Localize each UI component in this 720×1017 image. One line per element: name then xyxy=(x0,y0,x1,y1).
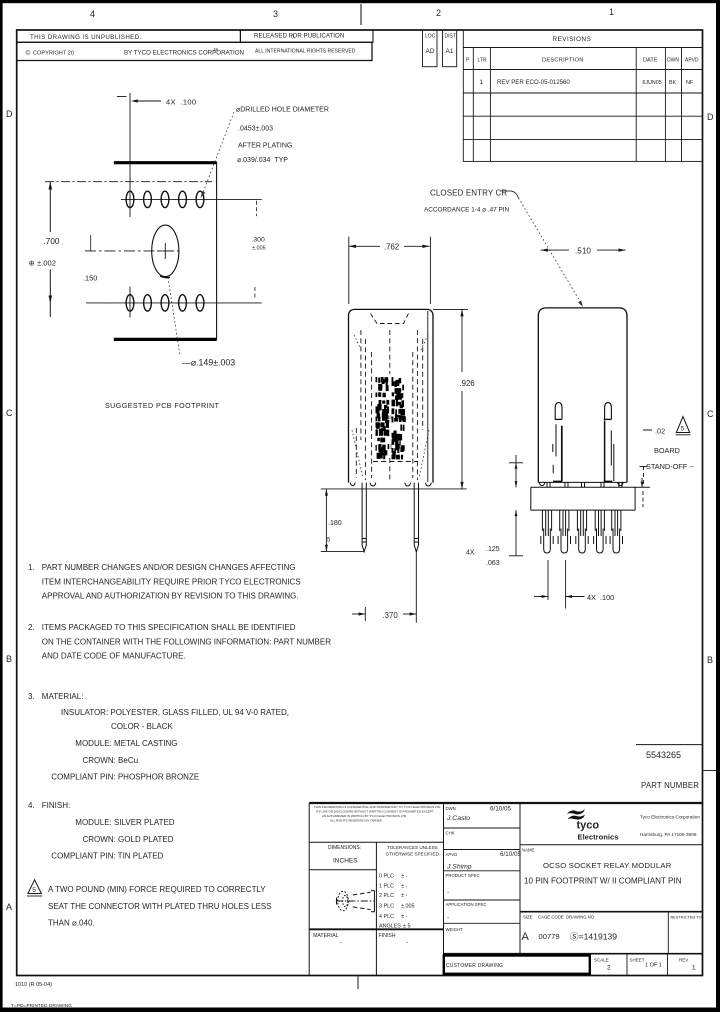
svg-text:.180: .180 xyxy=(328,520,342,527)
svg-text:PRODUCT SPEC: PRODUCT SPEC xyxy=(446,873,480,878)
svg-text:ON THE CONTAINER WITH THE FOLL: ON THE CONTAINER WITH THE FOLLOWING INFO… xyxy=(42,637,331,646)
legal fine print block xyxy=(314,805,441,823)
svg-text:AD: AD xyxy=(426,48,435,55)
internal dashed lines group xyxy=(356,330,422,908)
svg-text:FINISH:: FINISH: xyxy=(42,801,70,810)
svg-text:MATERIAL:: MATERIAL: xyxy=(42,692,84,701)
svg-text:INCHES: INCHES xyxy=(333,858,358,865)
svg-text:-: - xyxy=(447,890,449,896)
line through bottom hole row xyxy=(105,302,262,304)
svg-text:4.: 4. xyxy=(28,801,35,810)
svg-text:5543265: 5543265 xyxy=(646,750,681,760)
svg-text:4: 4 xyxy=(90,9,95,19)
svg-text:OTHERWISE SPECIFIED:: OTHERWISE SPECIFIED: xyxy=(386,852,441,857)
svg-text:1010 (R 05-04): 1010 (R 05-04) xyxy=(15,982,52,988)
svg-text:RESTRICTED TO: RESTRICTED TO xyxy=(671,915,702,920)
svg-text:REVISIONS: REVISIONS xyxy=(553,36,592,43)
svg-text:.510: .510 xyxy=(575,247,591,256)
title block vertical dividers xyxy=(309,803,520,976)
svg-text:DIMENSIONS:: DIMENSIONS: xyxy=(328,845,361,851)
margin zone letters right xyxy=(707,112,714,665)
svg-text:⌀DRILLED HOLE DIAMETER: ⌀DRILLED HOLE DIAMETER xyxy=(236,107,329,114)
compliant pins below board xyxy=(541,510,623,553)
closed entry callout text xyxy=(424,189,510,214)
svg-text:0 PLC: 0 PLC xyxy=(379,874,394,880)
svg-text:.150: .150 xyxy=(83,274,97,283)
size/cage/drawing row xyxy=(520,912,703,954)
product marking label (dense print) xyxy=(376,377,406,460)
header box row1 left: unpublished notice xyxy=(17,30,241,42)
right pin centerline extended xyxy=(415,552,417,623)
tolerances cell xyxy=(379,845,440,930)
svg-text:CAGE CODE: CAGE CODE xyxy=(538,915,564,920)
name cell xyxy=(520,845,703,886)
svg-text:COMPLIANT PIN: TIN PLATED: COMPLIANT PIN: TIN PLATED xyxy=(51,852,163,861)
svg-text:-: - xyxy=(340,940,342,946)
footprint board outline top edge xyxy=(114,161,217,164)
svg-text:PART NUMBER: PART NUMBER xyxy=(641,781,699,790)
svg-text:4X .100: 4X .100 xyxy=(166,98,196,107)
tick above first column xyxy=(117,96,127,98)
svg-text:COPYRIGHT 20: COPYRIGHT 20 xyxy=(33,51,74,57)
svg-text:4 PLC: 4 PLC xyxy=(379,914,394,920)
svg-text:ALL INTERNATIONAL RIGHTS RESER: ALL INTERNATIONAL RIGHTS RESERVED xyxy=(255,49,356,55)
.370 dimension xyxy=(352,607,416,621)
leader from drill note to hole xyxy=(201,112,235,198)
title block outer top edge xyxy=(309,802,702,804)
svg-text:NAME: NAME xyxy=(522,848,535,853)
svg-text:SHEET: SHEET xyxy=(630,958,645,963)
svg-text:± -: ± - xyxy=(401,874,407,880)
svg-text:-: - xyxy=(447,915,449,921)
LOC box xyxy=(423,30,438,67)
svg-text:CHK: CHK xyxy=(446,831,455,836)
svg-text:± -: ± - xyxy=(401,914,407,920)
svg-text:T=PO=PRINTED DRAWING: T=PO=PRINTED DRAWING xyxy=(11,1003,72,1009)
note 3 material xyxy=(28,692,289,782)
dashed extension top right xyxy=(255,201,257,216)
small vertical stub below centerline xyxy=(90,235,92,251)
svg-text:±.005: ±.005 xyxy=(252,246,266,252)
svg-text:THAN ⌀.040.: THAN ⌀.040. xyxy=(48,919,95,928)
svg-text:4X .100: 4X .100 xyxy=(587,593,614,602)
left pin xyxy=(362,483,366,552)
svg-text:APPROVAL AND AUTHORIZATION BY: APPROVAL AND AUTHORIZATION BY REVISION T… xyxy=(42,592,299,601)
svg-text:REV PER ECO-05-012560: REV PER ECO-05-012560 xyxy=(497,79,570,86)
svg-text:LOC: LOC xyxy=(425,34,436,40)
svg-text:MODULE: METAL CASTING: MODULE: METAL CASTING xyxy=(75,739,177,748)
svg-text:NF: NF xyxy=(686,80,694,86)
front view body outline xyxy=(349,309,434,482)
body bottom edge xyxy=(538,481,627,483)
svg-text:⌀.039/.034 TYP: ⌀.039/.034 TYP xyxy=(237,157,288,164)
svg-text:COMPLIANT PIN: PHOSPHOR BRONZE: COMPLIANT PIN: PHOSPHOR BRONZE xyxy=(51,773,199,782)
diagonal dotted corner lines xyxy=(352,335,429,478)
svg-text:B: B xyxy=(707,655,713,665)
svg-text:CROWN: BeCu: CROWN: BeCu xyxy=(83,756,139,765)
svg-text:.300: .300 xyxy=(252,237,265,244)
svg-text:ALL RIGHTS RESERVED BY OWNER.: ALL RIGHTS RESERVED BY OWNER. xyxy=(330,819,383,823)
svg-text:AS AUTHORIZED IN WRITING BY TY: AS AUTHORIZED IN WRITING BY TYCO ELECTRO… xyxy=(322,814,407,818)
svg-text:THIS DRAWING IS UNPUBLISHED.: THIS DRAWING IS UNPUBLISHED. xyxy=(30,34,142,41)
svg-text:ITEMS PACKAGED TO THIS SPECIFI: ITEMS PACKAGED TO THIS SPECIFICATION SHA… xyxy=(42,623,296,632)
scale / sheet / rev cells xyxy=(594,954,696,976)
material / finish row xyxy=(309,929,443,946)
svg-text:DWN: DWN xyxy=(446,806,456,811)
svg-text:OCSO SOCKET RELAY MODULAR: OCSO SOCKET RELAY MODULAR xyxy=(543,861,672,870)
dwn/chk/apvd rows xyxy=(444,828,521,923)
svg-text:.700: .700 xyxy=(44,237,60,246)
pin tip reference line xyxy=(321,550,364,552)
margin tick right xyxy=(703,770,717,772)
pcb board cross-section xyxy=(531,487,650,510)
board thickness arrows right xyxy=(641,478,644,507)
leader from center hole to .149 note xyxy=(160,276,170,278)
svg-text:ACCORDANCE 1-4 ⌀ .47 PIN: ACCORDANCE 1-4 ⌀ .47 PIN xyxy=(424,207,510,214)
.762 dimension xyxy=(349,237,431,304)
left socket contact xyxy=(553,403,562,483)
svg-text:BK: BK xyxy=(669,80,677,86)
margin zone letters left xyxy=(6,109,13,912)
bottom feet bumps xyxy=(350,483,431,486)
.700 dimension vertical line with arrows xyxy=(49,182,107,317)
svg-text:©: © xyxy=(26,49,31,57)
svg-text:Electronics: Electronics xyxy=(578,833,619,842)
svg-text:A TWO POUND (MIN) FORCE REQUIR: A TWO POUND (MIN) FORCE REQUIRED TO CORR… xyxy=(48,885,266,894)
svg-text:SCALE: SCALE xyxy=(594,958,609,963)
svg-text:DATE: DATE xyxy=(643,58,658,64)
svg-text:ITEM INTERCHANGEABILITY REQUIR: ITEM INTERCHANGEABILITY REQUIRE PRIOR TY… xyxy=(42,577,301,586)
projection symbol xyxy=(336,891,375,912)
svg-text:FINISH: FINISH xyxy=(379,933,396,939)
dash-dot line above top hole row xyxy=(45,181,212,183)
svg-text:AFTER PLATING: AFTER PLATING xyxy=(238,143,292,150)
svg-text:2.: 2. xyxy=(28,623,35,632)
svg-text:DIST: DIST xyxy=(445,34,456,40)
svg-text:INSULATOR: POLYESTER, GLASS FI: INSULATOR: POLYESTER, GLASS FILLED, UL 9… xyxy=(61,708,289,717)
footprint board outline right edge xyxy=(216,162,218,340)
svg-text:REV: REV xyxy=(679,958,688,963)
svg-text:1: 1 xyxy=(692,965,696,972)
revision row 1 xyxy=(480,79,694,86)
centerline vertical through first hole column bottom xyxy=(129,287,131,318)
.020 board stand-off callout xyxy=(643,417,695,472)
tyco logo xyxy=(567,809,618,842)
svg-text:STAND-OFF --: STAND-OFF -- xyxy=(646,462,695,471)
.180 dimension xyxy=(325,489,342,552)
svg-text:tyco: tyco xyxy=(577,820,600,832)
svg-text:3: 3 xyxy=(273,9,278,19)
inner right wall line xyxy=(427,311,429,482)
svg-text:±.005: ±.005 xyxy=(401,904,414,910)
dashed extension bottom right xyxy=(254,287,256,299)
header box row1 right: released for publication xyxy=(240,30,373,42)
svg-text:APVD: APVD xyxy=(685,58,699,64)
svg-text:3 PLC: 3 PLC xyxy=(379,904,394,910)
margin zone numbers top xyxy=(90,7,614,19)
svg-text:CLOSED ENTRY CR: CLOSED ENTRY CR xyxy=(430,189,507,198)
leader from closed entry callout xyxy=(500,191,583,307)
top hole row: 5 plated holes xyxy=(126,191,204,207)
svg-text:BY TYCO ELECTRONICS CORPORATIO: BY TYCO ELECTRONICS CORPORATION xyxy=(124,50,244,57)
line through top hole row xyxy=(121,198,262,200)
svg-text:A: A xyxy=(6,902,12,912)
svg-text:D: D xyxy=(6,109,13,119)
DIST box xyxy=(443,30,457,67)
svg-text:Ⓢ=1419139: Ⓢ=1419139 xyxy=(570,932,617,942)
lower dim line left of pins xyxy=(509,510,523,556)
svg-text:CROWN: GOLD PLATED: CROWN: GOLD PLATED xyxy=(83,835,174,844)
svg-text:.063: .063 xyxy=(486,560,500,567)
svg-text:APPLICATION SPEC: APPLICATION SPEC xyxy=(446,902,487,907)
svg-text:APVD: APVD xyxy=(446,852,458,857)
note 2 xyxy=(28,623,331,661)
body top extension line to .926 dim xyxy=(433,308,468,310)
footprint board outline bottom edge xyxy=(114,338,217,341)
svg-text:—⌀.149±.003: —⌀.149±.003 xyxy=(182,358,235,368)
svg-text:ITS USE OR DISCLOSURE WITHOUT: ITS USE OR DISCLOSURE WITHOUT WRITTEN CO… xyxy=(316,810,434,814)
short pin stubs between body and board xyxy=(547,482,622,487)
dashed extension above board right xyxy=(643,466,645,486)
svg-text:Harrisburg, PA 17105-3608: Harrisburg, PA 17105-3608 xyxy=(640,832,697,837)
right pin xyxy=(414,483,418,552)
svg-text:.02: .02 xyxy=(655,427,665,436)
margin tick bottom xyxy=(357,976,359,990)
svg-text:10 PIN FOOTPRINT W/ II COMPLIA: 10 PIN FOOTPRINT W/ II COMPLIANT PIN xyxy=(524,877,682,886)
svg-text:SUGGESTED PCB FOOTPRINT: SUGGESTED PCB FOOTPRINT xyxy=(105,402,220,410)
svg-text:.762: .762 xyxy=(384,243,399,252)
svg-text:2: 2 xyxy=(436,8,441,18)
dashed top notch xyxy=(371,314,409,324)
.510 dimension xyxy=(541,247,626,256)
stand-off dim left of board xyxy=(509,455,523,487)
4X .100 bottom dimension xyxy=(534,560,614,609)
svg-text:COLOR - BLACK: COLOR - BLACK xyxy=(111,722,173,731)
svg-text:RELEASED FOR PUBLICATION: RELEASED FOR PUBLICATION xyxy=(254,33,344,40)
4X .125 / .063 pin dims xyxy=(466,546,500,567)
svg-text:A1: A1 xyxy=(446,48,454,55)
svg-text:LTR: LTR xyxy=(478,58,487,64)
svg-text:1: 1 xyxy=(609,7,614,17)
svg-text:1: 1 xyxy=(480,79,484,86)
svg-text:.370: .370 xyxy=(383,611,399,620)
bottom hole row: 5 plated holes xyxy=(126,295,204,311)
revisions table xyxy=(463,30,702,161)
svg-text:2: 2 xyxy=(607,965,611,972)
dimensions cell xyxy=(309,842,443,870)
note 5 triangle flag xyxy=(27,880,42,896)
svg-text:4X: 4X xyxy=(466,550,475,557)
right socket contact xyxy=(604,403,614,483)
svg-text:00779: 00779 xyxy=(539,932,560,941)
centerline vertical through first hole column top xyxy=(129,93,131,217)
svg-text:± -: ± - xyxy=(401,884,407,890)
dashed bottom horizontal inside xyxy=(373,461,418,463)
revisions table headers xyxy=(466,36,699,64)
svg-text:J.Casto: J.Casto xyxy=(446,815,470,822)
svg-text:THIS INFORMATION IS CONFIDENTI: THIS INFORMATION IS CONFIDENTIAL AND PRO… xyxy=(314,805,441,809)
svg-text:CUSTOMER DRAWING: CUSTOMER DRAWING xyxy=(446,963,503,969)
svg-text:SEAT THE CONNECTOR WITH PLATED: SEAT THE CONNECTOR WITH PLATED THRU HOLE… xyxy=(48,902,272,911)
svg-text:D: D xyxy=(707,112,714,122)
body corner feet xyxy=(540,482,624,485)
svg-text:MODULE: SILVER PLATED: MODULE: SILVER PLATED xyxy=(75,818,175,827)
svg-text:TOLERANCES UNLESS: TOLERANCES UNLESS xyxy=(387,845,438,850)
note 1 xyxy=(28,563,301,601)
bottom row: customer drawing box xyxy=(444,954,703,974)
svg-text:C: C xyxy=(707,409,714,419)
svg-text:J.Shimp: J.Shimp xyxy=(446,864,472,871)
svg-text:6/10/05: 6/10/05 xyxy=(500,851,522,858)
svg-text:WEIGHT: WEIGHT xyxy=(446,927,464,932)
svg-text:19: 19 xyxy=(213,47,219,52)
svg-text:BOARD: BOARD xyxy=(654,446,680,455)
svg-text:.926: .926 xyxy=(460,379,475,388)
svg-text:.0453±.003: .0453±.003 xyxy=(238,126,273,133)
svg-text:6JUN05: 6JUN05 xyxy=(643,80,662,86)
svg-text:⊕ ±.002: ⊕ ±.002 xyxy=(29,259,56,268)
svg-text:-: - xyxy=(406,940,408,946)
svg-text:A: A xyxy=(522,931,530,943)
.926 dimension xyxy=(460,309,475,489)
svg-text:DESCRIPTION: DESCRIPTION xyxy=(542,58,584,64)
svg-text:SIZE: SIZE xyxy=(523,915,533,920)
svg-text:3.: 3. xyxy=(28,692,35,701)
svg-text:Tyco Electronics Corporation: Tyco Electronics Corporation xyxy=(640,815,700,820)
svg-text:2 PLC: 2 PLC xyxy=(379,893,394,899)
svg-text:5: 5 xyxy=(32,887,36,894)
note 4 finish xyxy=(28,801,175,860)
svg-text:6/10/05: 6/10/05 xyxy=(490,806,512,813)
svg-text:MATERIAL: MATERIAL xyxy=(313,933,339,939)
4X .100 dimension label with leader arrow xyxy=(131,98,196,107)
drilled hole note text xyxy=(236,107,329,165)
center hole cross ticks xyxy=(157,250,174,252)
svg-text:DRAWING NO: DRAWING NO xyxy=(566,915,595,920)
svg-text:C: C xyxy=(6,408,13,418)
large center hole xyxy=(152,225,179,277)
side view body outline xyxy=(538,308,627,483)
svg-text:± -: ± - xyxy=(401,893,407,899)
svg-text:AND DATE CODE OF MANUFACTURE.: AND DATE CODE OF MANUFACTURE. xyxy=(42,652,186,661)
header box row2: copyright line xyxy=(17,42,372,60)
svg-text:1.: 1. xyxy=(28,563,35,572)
margin tick top xyxy=(360,4,362,25)
seating plane line xyxy=(321,488,467,490)
note 5 text xyxy=(48,885,272,928)
svg-text:.125: .125 xyxy=(486,546,500,553)
svg-text:DWN: DWN xyxy=(667,58,679,64)
center hole dash-dot centerline xyxy=(85,250,182,252)
svg-text:1 OF 1: 1 OF 1 xyxy=(645,963,662,969)
svg-text:PART NUMBER CHANGES AND/OR DES: PART NUMBER CHANGES AND/OR DESIGN CHANGE… xyxy=(42,563,296,572)
svg-text:B: B xyxy=(6,654,12,664)
svg-text:1 PLC: 1 PLC xyxy=(379,884,394,890)
